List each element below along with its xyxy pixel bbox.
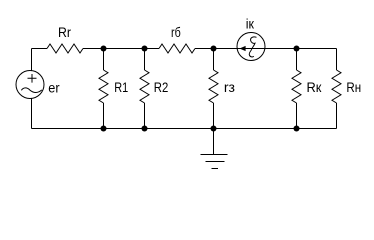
svg-text:rб: rб (171, 25, 181, 40)
svg-text:R2: R2 (154, 80, 169, 95)
svg-text:Rr: Rr (58, 25, 71, 40)
wire top right segment (rb to right corner, through ik source) (195, 48, 337, 50)
node F (R2 bottom) (142, 126, 148, 132)
resistor Rк (292, 49, 321, 129)
current source iк (237, 16, 265, 60)
resistor rз (209, 49, 235, 129)
node E (R1 bottom) (101, 126, 107, 132)
node A (R1 top) (101, 46, 107, 52)
wire left vertical (source leads) (31, 49, 33, 129)
resistor R2 (140, 49, 168, 129)
wire right vertical (Rn leads) (336, 49, 338, 129)
svg-text:R1: R1 (114, 80, 128, 95)
svg-text:Rн: Rн (346, 80, 361, 95)
wire top-left segment (32, 48, 48, 50)
node B (R2 top) (142, 46, 148, 52)
wire top middle segment (Rr to rb) (83, 48, 159, 50)
node D (Rк top) (294, 46, 300, 52)
svg-text:Rк: Rк (307, 80, 322, 95)
node G (ground junction) (211, 126, 217, 132)
wire bottom rail (32, 128, 337, 130)
resistor Rr (47, 25, 83, 53)
resistor R1 (99, 49, 128, 129)
svg-text:iк: iк (246, 16, 254, 31)
voltage source er (16, 71, 60, 99)
node C (rз top) (211, 46, 217, 52)
svg-text:er: er (48, 81, 60, 96)
resistor Rн (332, 70, 361, 103)
resistor rб (159, 25, 195, 53)
ground (201, 129, 228, 169)
node H (Rк bottom) (294, 126, 300, 132)
svg-text:rз: rз (224, 80, 235, 95)
